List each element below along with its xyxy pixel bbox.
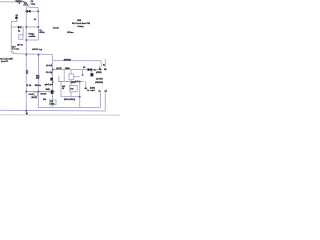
transistor Q3 blob <box>90 73 93 76</box>
svg-text:color: color <box>90 90 95 92</box>
wire cap C7 stub x85.7 <box>85 82 87 88</box>
junction dot bus x38.5 <box>38 54 40 56</box>
wire drop x82.5 <box>82 70 84 76</box>
junction dot mid bus x79.7 <box>79 81 81 83</box>
wire main box top edge <box>53 60 102 62</box>
wire bottom bus2 y110.7 <box>0 109 105 112</box>
transistor Q1 blob <box>15 17 18 19</box>
wire bus y54.6 <box>13 54 52 55</box>
svg-text:+5 volt: +5 volt <box>53 26 59 29</box>
svg-text:(+): (+) <box>105 91 108 93</box>
svg-text:from DC: from DC <box>1 61 8 63</box>
wire left rail x26.3 <box>25 3 27 111</box>
capacitor C5 plates x82.5 <box>81 74 83 77</box>
junction dot box U1 bottom-left <box>26 39 28 41</box>
diode D5 black on top bus <box>88 68 91 71</box>
transistor blob on bus91 right <box>51 90 53 94</box>
svg-text:(470u-1000u): (470u-1000u) <box>64 98 75 101</box>
svg-text:DC in (4.5-40V): DC in (4.5-40V) <box>0 57 13 60</box>
wire battery rail x11.3 <box>11 22 13 54</box>
svg-text:7 A max: 7 A max <box>12 47 20 50</box>
wire right rail x38.4 upper segment <box>37 11 39 40</box>
wire bottom bus1 y107.4 <box>38 106 101 108</box>
svg-text:Q1: Q1 <box>16 15 18 17</box>
resistor R1 lower mark <box>19 3 20 4</box>
resistor R1 thick segment on line A <box>17 1 21 2</box>
wire opto to box R7 <box>70 80 72 86</box>
diode D2 blob <box>18 26 21 29</box>
wire rail x38.5 lower segment <box>37 55 39 108</box>
wire drop x79.7 <box>79 82 81 108</box>
wire drop x71 to optocoupler <box>70 70 72 74</box>
junction dot box U1 top-left <box>26 26 28 28</box>
ground blob below bus <box>26 112 28 114</box>
svg-text:4700u: 4700u <box>39 31 44 34</box>
svg-text:D6: D6 <box>83 67 85 69</box>
wire box U1 bottom edge <box>26 39 38 41</box>
switch S1 contact dot <box>24 2 26 4</box>
svg-text:C2 0.1u: C2 0.1u <box>46 72 52 74</box>
junction dot rail bottom <box>26 110 28 112</box>
wire terminal T2 <box>104 59 106 67</box>
svg-text:ATMEL: ATMEL <box>77 19 82 22</box>
svg-text:10k: 10k <box>70 88 73 90</box>
relay K1 box <box>19 35 23 40</box>
wire bent riser x105.3 <box>104 93 106 111</box>
wire main box left edge <box>52 61 54 108</box>
junction dot bottom loop x79.7 <box>79 96 81 98</box>
wire mid bus y81.5 <box>58 81 84 83</box>
svg-text:Wide Throttle Motor PWM: Wide Throttle Motor PWM <box>72 22 90 25</box>
wire line C with diode D1 <box>26 10 38 12</box>
wire bent riser x100.4 <box>99 93 101 108</box>
junction dot bus91 x38.3 <box>38 91 40 93</box>
junction dot bus x26.3 <box>26 54 28 56</box>
svg-text:(1k 1W): (1k 1W) <box>96 78 103 80</box>
wire line B after switch <box>28 6 38 8</box>
wire vertical x38 upper <box>37 7 39 11</box>
fuse F1 tick on line A <box>22 1 25 3</box>
wire terminal T1 <box>100 61 102 67</box>
capacitor C7 plate <box>85 88 87 90</box>
switch S1 lever <box>26 2 29 6</box>
svg-text:5v: 5v <box>34 19 36 21</box>
svg-text:B+: B+ <box>103 64 105 66</box>
svg-text:1u: 1u <box>87 90 89 92</box>
optocoupler U2 box <box>69 74 74 80</box>
transistor Q5 blob lower left edge <box>51 90 54 93</box>
svg-text:(NE555): (NE555) <box>64 59 71 61</box>
svg-text:Delay: Delay <box>78 26 85 28</box>
svg-text:3055 t: 3055 t <box>65 67 70 70</box>
wire optocoupler output <box>74 76 80 78</box>
junction dot line C right <box>38 11 40 13</box>
wire mid-left bus y91.5 <box>26 91 54 93</box>
svg-text:pin1 gnd: pin1 gnd <box>45 84 53 86</box>
svg-text:7805: 7805 <box>50 103 54 105</box>
wire box U1 top edge <box>26 26 38 28</box>
diode D1 on line C <box>28 10 31 13</box>
svg-text:R6 100: R6 100 <box>41 94 47 96</box>
svg-text:Q5 2N: Q5 2N <box>56 68 62 70</box>
page edge grey line <box>0 114 120 116</box>
diode D6 red LED on mid bus <box>75 80 78 83</box>
wire battery top corner <box>11 21 17 23</box>
svg-text:5A fuse: 5A fuse <box>16 0 23 3</box>
svg-text:(2N3055): (2N3055) <box>95 82 103 84</box>
diode D1 bar <box>26 10 29 13</box>
capacitor C3 box on bus91 <box>34 92 38 96</box>
diode D2 bar <box>20 26 23 29</box>
svg-text:K1: K1 <box>18 30 20 32</box>
wire stub x58.9 <box>58 76 60 82</box>
svg-text:LM 317 reg: LM 317 reg <box>32 49 43 51</box>
svg-text:rectifier: rectifier <box>29 35 36 38</box>
wire top supply line A <box>0 1 26 3</box>
junction dot top bus x91.7 <box>91 69 93 71</box>
svg-text:(2k): (2k) <box>36 77 40 79</box>
svg-text:pin 8,4: pin 8,4 <box>46 64 52 67</box>
svg-text:(470R): (470R) <box>96 71 102 74</box>
svg-text:5k: 5k <box>62 88 64 90</box>
wire R7 to bottom loop <box>70 92 72 97</box>
svg-text:12V dc: 12V dc <box>17 45 23 47</box>
svg-text:(47uF): (47uF) <box>32 96 38 99</box>
resistor R7 box <box>70 86 78 92</box>
svg-text:CL 1A: CL 1A <box>26 84 32 87</box>
wire top bus y69.6 of 555 stage <box>53 69 100 71</box>
diode D5 bar <box>90 68 93 71</box>
svg-text:in: in <box>45 84 47 86</box>
svg-text:4N35: 4N35 <box>71 81 75 84</box>
junction dot 555 top-left <box>52 69 54 71</box>
wire drop x64.2 <box>63 70 65 82</box>
svg-text:M2: M2 <box>104 69 107 71</box>
wire stub up x99.4 <box>98 66 100 70</box>
svg-text:10k: 10k <box>43 99 46 101</box>
wire drop x91.7 <box>91 70 93 73</box>
wire bottom loop y96.7 <box>61 96 80 98</box>
diode D6 bar <box>77 80 80 83</box>
wire diode D2 to relay K1 <box>21 27 24 35</box>
label box LM7805 <box>50 100 57 105</box>
wire box corner x52.6 <box>52 55 54 61</box>
junction dot bus91 x26.3 <box>26 91 28 93</box>
transistor Q4 blob on left edge <box>50 78 53 81</box>
wire left loop x61 <box>60 82 62 97</box>
svg-text:100R: 100R <box>46 89 51 91</box>
junction dot left edge x52.5 mid <box>52 81 54 83</box>
wire battery blob lead <box>15 19 17 22</box>
svg-text:M1: M1 <box>99 69 102 71</box>
wire stub to diode D2 <box>11 26 17 28</box>
junction dot line C left <box>26 11 28 13</box>
svg-text:C3 47u: C3 47u <box>29 93 35 96</box>
svg-text:R5A 2k: R5A 2k <box>35 84 41 87</box>
junction dot box U1 top-right <box>38 26 40 28</box>
svg-text:555 timer: 555 timer <box>67 31 73 34</box>
